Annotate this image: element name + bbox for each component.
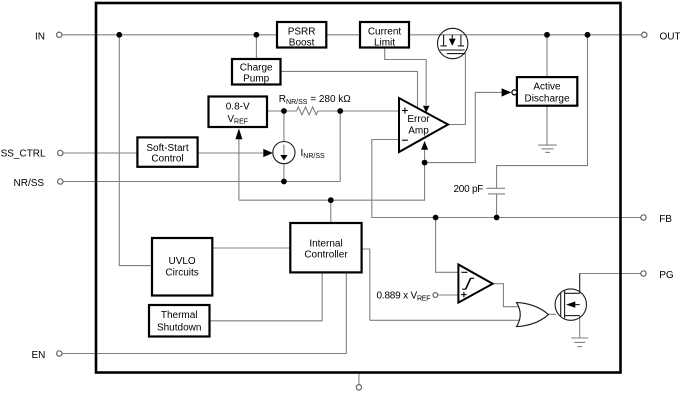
node resistor right junction: [337, 108, 343, 114]
wire resistor left node down to current source: [283, 111, 285, 142]
svg-text:Shutdown: Shutdown: [157, 323, 201, 334]
block Current Limit: [360, 22, 409, 48]
svg-text:Controller: Controller: [304, 249, 348, 260]
svg-text:RNR/SS = 280 kΩ: RNR/SS = 280 kΩ: [279, 94, 352, 106]
pin GND terminal: [356, 385, 361, 390]
svg-text:SS_CTRL: SS_CTRL: [1, 149, 46, 160]
wire NR/SS pin line: [63, 181, 340, 183]
wire EN pin to Internal Controller: [62, 272, 346, 353]
arrow soft-start to current source: [263, 149, 273, 157]
pin IN terminal: [57, 32, 62, 37]
node resistor left junction: [281, 108, 287, 114]
op-amp plus input mark: [402, 108, 408, 114]
wire OUT node down to Active Discharge: [546, 35, 548, 77]
svg-text:Soft-Start: Soft-Start: [146, 143, 188, 154]
block Charge Pump: [232, 59, 281, 85]
wire error amp output to pass FET gate: [448, 54, 465, 125]
wire IN node down to Charge Pump: [255, 35, 257, 59]
wire PG MOSFET drain to PG pin: [580, 273, 641, 275]
arrow current limit into error amp: [423, 106, 430, 113]
arrow into active discharge: [502, 88, 512, 96]
pin NR/SS terminal: [58, 179, 63, 184]
wire Charge Pump output to Error Amp top: [281, 71, 418, 108]
wire Internal Controller right to down: [362, 249, 370, 320]
device boundary box: [96, 3, 621, 373]
node FB-200pF junction: [494, 215, 500, 221]
wire error amp node to Active Discharge arrow: [425, 92, 504, 162]
resistor RNR/SS zigzag: [297, 107, 318, 115]
wire PSRR Boost to Current Limit: [326, 34, 360, 36]
wire reference net to Internal Controller top: [330, 200, 332, 223]
block Internal Controller: [290, 223, 361, 272]
transistor Q2 PG open-drain NMOS: [555, 274, 586, 321]
terminal 0.889xVREF: [433, 293, 438, 298]
wire Thermal Shutdown to Internal Controller: [210, 272, 323, 320]
comparator hysteresis symbol: [462, 278, 474, 289]
svg-text:FB: FB: [659, 214, 672, 225]
wire error amp bottom arrow stem: [424, 148, 426, 163]
transistor Q1 pass PMOS: [438, 28, 468, 58]
block PSRR Boost: [277, 22, 326, 48]
transistor Q1 body arrow: [449, 39, 456, 46]
svg-text:0.8-V: 0.8-V: [226, 102, 250, 113]
wire Soft-Start Control to current source arrow: [198, 152, 266, 154]
pin EN terminal: [57, 351, 62, 356]
wire VREF arrow stem: [238, 136, 240, 200]
gate G1 OR gate: [517, 303, 549, 327]
svg-text:Error: Error: [407, 114, 430, 125]
node OUT-200pF junction: [585, 32, 591, 38]
svg-text:NR/SS: NR/SS: [14, 178, 45, 189]
svg-text:INR/SS: INR/SS: [301, 148, 326, 160]
svg-text:Discharge: Discharge: [524, 94, 569, 105]
svg-text:Limit: Limit: [374, 38, 395, 49]
wire GND pin stub: [358, 373, 360, 385]
block 0.8-V VREF: [209, 97, 268, 128]
wire Current Limit to OUT pin through pass FET: [409, 34, 642, 36]
svg-text:Amp: Amp: [408, 126, 429, 137]
ground under Active Discharge: [538, 144, 557, 146]
wire IN node down to UVLO Circuits: [119, 35, 152, 266]
svg-text:200 pF: 200 pF: [454, 184, 484, 195]
wire VREF output to resistor and Error Amp + input: [267, 110, 297, 112]
op-amp U1 Error Amp: [399, 98, 448, 152]
svg-text:Current: Current: [368, 26, 402, 37]
comparator minus input mark: [461, 271, 467, 273]
wire 200pF capacitor bottom to FB line: [496, 194, 498, 218]
node error amp feedback junction: [422, 160, 428, 166]
comparator plus input mark: [461, 292, 466, 297]
comparator U2 power-good: [458, 265, 492, 303]
wire comparator output to OR gate top input: [493, 284, 520, 307]
block Active Discharge: [517, 77, 577, 106]
svg-text:Thermal: Thermal: [161, 310, 198, 321]
svg-text:Circuits: Circuits: [165, 267, 198, 278]
wire Current Limit output to Error Amp top arrow: [385, 48, 427, 106]
node IN-UVLO junction: [116, 32, 122, 38]
capacitor C 200pF plates: [487, 187, 506, 189]
current source I_NR/SS: [273, 142, 295, 164]
wire PG MOSFET source to ground: [579, 316, 581, 338]
node OUT-ActiveDischarge junction: [544, 32, 550, 38]
wire SS_CTRL pin to Soft-Start Control: [63, 152, 137, 154]
wire UVLO to Internal Controller: [212, 247, 290, 249]
svg-text:OUT: OUT: [660, 31, 680, 42]
svg-text:Active: Active: [533, 82, 561, 93]
arrow feedback into error amp bottom: [421, 141, 428, 150]
wire FB net to Error Amp - input: [372, 140, 641, 218]
svg-text:Internal: Internal: [309, 238, 342, 249]
wire 0.889xVREF to comparator + input: [438, 294, 459, 296]
wire IN rail to PSRR Boost: [62, 34, 277, 36]
ground under PG MOSFET: [571, 337, 588, 339]
bubble at active discharge input: [512, 90, 517, 95]
pin SS_CTRL terminal: [58, 150, 63, 155]
node current source NR/SS junction: [281, 179, 287, 185]
pin PG terminal: [641, 271, 646, 276]
wire current source bottom to NR/SS line: [283, 163, 285, 181]
arrow into VREF box: [235, 128, 242, 139]
svg-text:PG: PG: [659, 270, 674, 281]
node IN-ChargePump junction: [254, 32, 260, 38]
svg-text:IN: IN: [35, 31, 45, 42]
wire Active Discharge to ground: [546, 106, 548, 145]
svg-text:0.889 x VREF: 0.889 x VREF: [377, 291, 431, 303]
pin FB terminal: [641, 215, 646, 220]
op-amp minus input mark: [402, 139, 408, 141]
wire FB line to comparator - input: [436, 218, 459, 273]
block Soft-Start Control: [137, 137, 197, 166]
node reference-controller junction: [328, 197, 334, 203]
wire reference net to error amp bottom node: [239, 163, 425, 201]
wire OR gate output to PG MOSFET gate: [548, 313, 556, 315]
block UVLO Circuits: [152, 238, 212, 296]
svg-text:Charge: Charge: [240, 62, 273, 73]
svg-text:EN: EN: [31, 350, 45, 361]
transistor Q2 body arrow: [566, 302, 575, 308]
wire OUT node to 200pF capacitor top: [497, 35, 588, 189]
wire resistor right node down to NR/SS line: [339, 111, 341, 182]
block Thermal Shutdown: [149, 305, 210, 337]
wire Internal Controller to OR gate bottom input: [370, 319, 520, 321]
svg-text:Control: Control: [151, 154, 183, 165]
pin OUT terminal: [642, 32, 647, 37]
svg-text:Pump: Pump: [243, 74, 270, 85]
svg-text:PSRR: PSRR: [288, 26, 316, 37]
svg-text:UVLO: UVLO: [168, 256, 195, 267]
svg-text:Boost: Boost: [289, 38, 315, 49]
node FB-comparator junction: [433, 215, 439, 221]
